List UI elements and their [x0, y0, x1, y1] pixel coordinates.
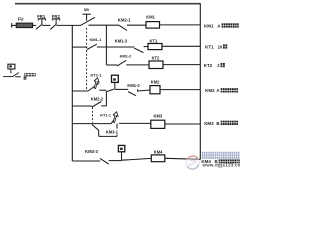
- svg-text:KM2: KM2: [205, 88, 215, 93]
- svg-text:KM2-2: KM2-2: [91, 97, 104, 102]
- svg-text:KT1-1: KT1-1: [100, 113, 112, 118]
- svg-text:KM2-1: KM2-1: [118, 17, 132, 22]
- svg-text:KM1-1: KM1-1: [90, 37, 103, 42]
- svg-text:KM1: KM1: [204, 23, 214, 28]
- svg-text:KM3: KM3: [154, 114, 163, 119]
- svg-text:KM1-2: KM1-2: [127, 83, 140, 88]
- svg-text:KT2-1: KT2-1: [91, 73, 103, 78]
- svg-text:SB: SB: [84, 8, 89, 12]
- svg-text:KM3-1: KM3-1: [106, 130, 119, 135]
- svg-text:KT2: KT2: [152, 56, 160, 61]
- svg-text:KT1: KT1: [150, 38, 158, 43]
- svg-text:KM1-2: KM1-2: [120, 53, 133, 58]
- svg-text:B: B: [216, 121, 219, 126]
- svg-text:KM4: KM4: [154, 149, 163, 154]
- svg-text:FU: FU: [18, 17, 24, 22]
- svg-text:10: 10: [218, 44, 223, 49]
- svg-text:KM1: KM1: [146, 15, 155, 20]
- svg-text:FR2: FR2: [52, 14, 61, 19]
- svg-text:FR1: FR1: [37, 14, 46, 19]
- svg-text:KM2: KM2: [151, 80, 160, 85]
- svg-text:KM1-3: KM1-3: [115, 39, 128, 44]
- svg-text:www.dgjs123.com: www.dgjs123.com: [202, 163, 241, 168]
- svg-text:KT1: KT1: [205, 44, 214, 49]
- svg-text:KT2: KT2: [204, 63, 213, 68]
- svg-text:KM3-3: KM3-3: [85, 149, 99, 154]
- svg-text:KM3: KM3: [204, 121, 214, 126]
